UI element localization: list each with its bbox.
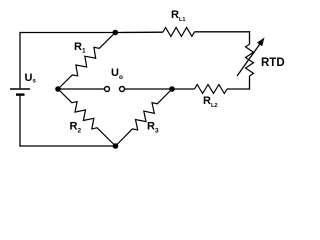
node C (bottom) junction dot <box>113 143 119 149</box>
svg-text:RTD: RTD <box>261 57 285 69</box>
resistor RL1 <box>163 27 195 36</box>
svg-text:R2: R2 <box>70 121 82 135</box>
output terminal circle 2 <box>120 87 125 92</box>
RTD arrow head <box>257 38 265 47</box>
resistor R3 <box>116 89 173 146</box>
wire RL1 to top-right corner <box>195 31 251 33</box>
svg-text:R3: R3 <box>147 121 159 135</box>
wire bottom (left rail to node C) <box>19 145 115 147</box>
resistor R1 <box>58 33 115 90</box>
svg-text:RL1: RL1 <box>171 9 185 23</box>
wire right rail lower <box>249 76 251 90</box>
node D (right) junction dot <box>169 86 175 92</box>
RTD arrow shaft <box>237 44 260 76</box>
wire top-left (left rail to node A) <box>19 32 115 34</box>
wire bottom-right corner to RL2 <box>227 88 250 90</box>
svg-text:Uo: Uo <box>111 67 123 81</box>
wire node B to output terminal 1 <box>58 88 104 90</box>
wire output terminal 2 to node D <box>125 88 172 90</box>
node A (top) junction dot <box>113 30 119 36</box>
battery US positive plate <box>10 88 30 90</box>
resistor RL2 <box>195 85 228 94</box>
svg-text:Us: Us <box>25 72 37 85</box>
node B (left) junction dot <box>55 86 61 92</box>
svg-text:RL2: RL2 <box>203 95 217 109</box>
output terminal circle 1 <box>105 87 110 92</box>
battery US negative plate <box>16 93 25 95</box>
wire left rail upper <box>19 32 21 88</box>
wire left rail lower <box>19 95 21 147</box>
wire node A to RL1 <box>115 31 163 33</box>
wire right rail upper (to RTD top) <box>249 31 251 44</box>
RTD variable resistor zigzag <box>246 44 254 76</box>
resistor R2 <box>58 89 116 146</box>
wire RL2 to node D <box>172 88 195 90</box>
Wheatstone bridge circuit with RTD sensor <box>0 0 300 200</box>
svg-text:R1: R1 <box>74 41 86 55</box>
